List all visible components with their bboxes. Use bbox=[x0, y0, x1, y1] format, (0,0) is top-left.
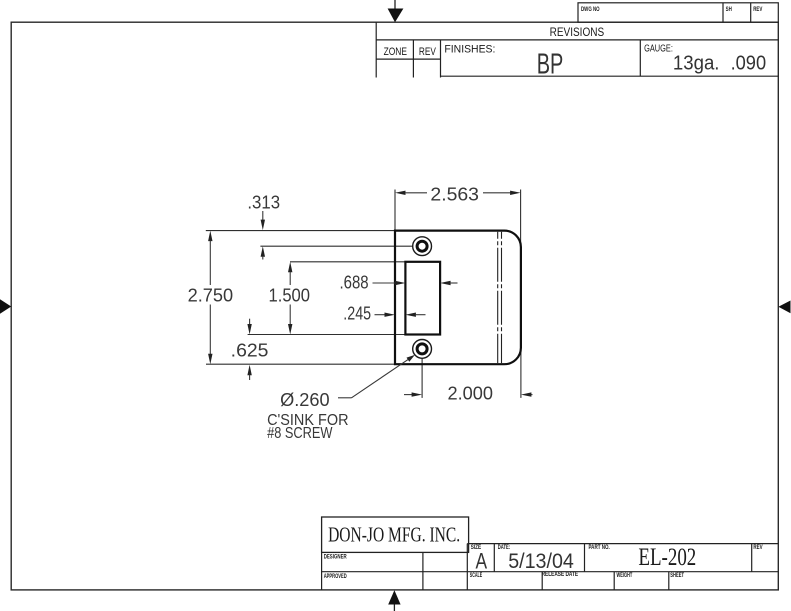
svg-text:2.000: 2.000 bbox=[448, 384, 494, 404]
svg-text:BP: BP bbox=[537, 48, 564, 80]
svg-text:.688: .688 bbox=[340, 273, 369, 293]
svg-text:DESIGNER: DESIGNER bbox=[324, 553, 347, 560]
svg-text:RELEASE DATE: RELEASE DATE bbox=[542, 571, 579, 578]
svg-text:REV: REV bbox=[753, 544, 763, 551]
svg-text:WEIGHT: WEIGHT bbox=[617, 572, 633, 579]
svg-text:.090: .090 bbox=[731, 53, 767, 75]
svg-text:ZONE: ZONE bbox=[384, 46, 407, 58]
svg-text:2.563: 2.563 bbox=[430, 184, 479, 204]
svg-text:2.750: 2.750 bbox=[188, 285, 234, 305]
svg-text:Ø.260: Ø.260 bbox=[280, 390, 330, 410]
svg-text:5/13/04: 5/13/04 bbox=[508, 550, 574, 573]
svg-text:.245: .245 bbox=[343, 304, 371, 324]
svg-text:DWG NO: DWG NO bbox=[581, 6, 600, 13]
svg-text:1.500: 1.500 bbox=[269, 285, 311, 305]
svg-text:.625: .625 bbox=[231, 340, 269, 360]
svg-text:DON-JO MFG. INC.: DON-JO MFG. INC. bbox=[328, 522, 460, 546]
svg-text:.313: .313 bbox=[247, 193, 280, 213]
svg-text:A: A bbox=[476, 549, 488, 574]
svg-text:APPROVED: APPROVED bbox=[324, 573, 347, 580]
svg-text:#8 SCREW: #8 SCREW bbox=[267, 425, 333, 442]
svg-text:13ga.: 13ga. bbox=[673, 53, 720, 75]
svg-text:REV: REV bbox=[753, 6, 763, 13]
svg-text:SH: SH bbox=[726, 6, 732, 13]
svg-text:FINISHES:: FINISHES: bbox=[444, 43, 495, 55]
svg-text:GAUGE:: GAUGE: bbox=[644, 43, 673, 55]
svg-text:REVISIONS: REVISIONS bbox=[550, 27, 605, 39]
svg-text:REV: REV bbox=[419, 46, 436, 58]
svg-text:PART NO.: PART NO. bbox=[589, 544, 610, 551]
svg-text:EL-202: EL-202 bbox=[638, 544, 696, 571]
svg-text:SHEET: SHEET bbox=[670, 572, 684, 579]
svg-text:SCALE: SCALE bbox=[470, 572, 482, 579]
